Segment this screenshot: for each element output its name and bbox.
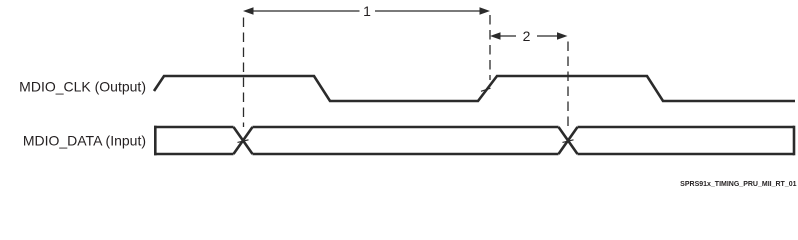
svg-text:MDIO_DATA (Input): MDIO_DATA (Input) (23, 132, 146, 148)
crossover X1 (234, 127, 253, 154)
dimension arrow 1 (tMDIO period) (243, 7, 490, 15)
top rail (154, 126, 794, 129)
MDIO_DATA bus waveform (154, 126, 794, 156)
svg-text:MDIO_CLK (Output): MDIO_CLK (Output) (19, 79, 146, 95)
measurement tick at X2 center (563, 140, 574, 143)
dimension arrow 2 (490, 32, 568, 40)
dashed reference line at node C (DATA transition) (567, 42, 569, 127)
bottom rail (154, 153, 794, 156)
measurement tick on CLK rising edge (481, 88, 491, 91)
left vertical edge (154, 126, 157, 156)
crossover X2 (559, 127, 578, 154)
svg-text:1: 1 (363, 3, 371, 19)
svg-text:SPRS91x_TIMING_PRU_MII_RT_01: SPRS91x_TIMING_PRU_MII_RT_01 (680, 181, 796, 188)
dashed reference line at node B (CLK rising edge) (489, 15, 491, 80)
right vertical edge (793, 126, 796, 156)
MDIO_CLK waveform (154, 76, 795, 101)
measurement tick at X1 center (238, 140, 249, 143)
svg-text:2: 2 (523, 28, 531, 44)
dashed reference line at node A (CLK midpoint, left) (243, 18, 245, 128)
